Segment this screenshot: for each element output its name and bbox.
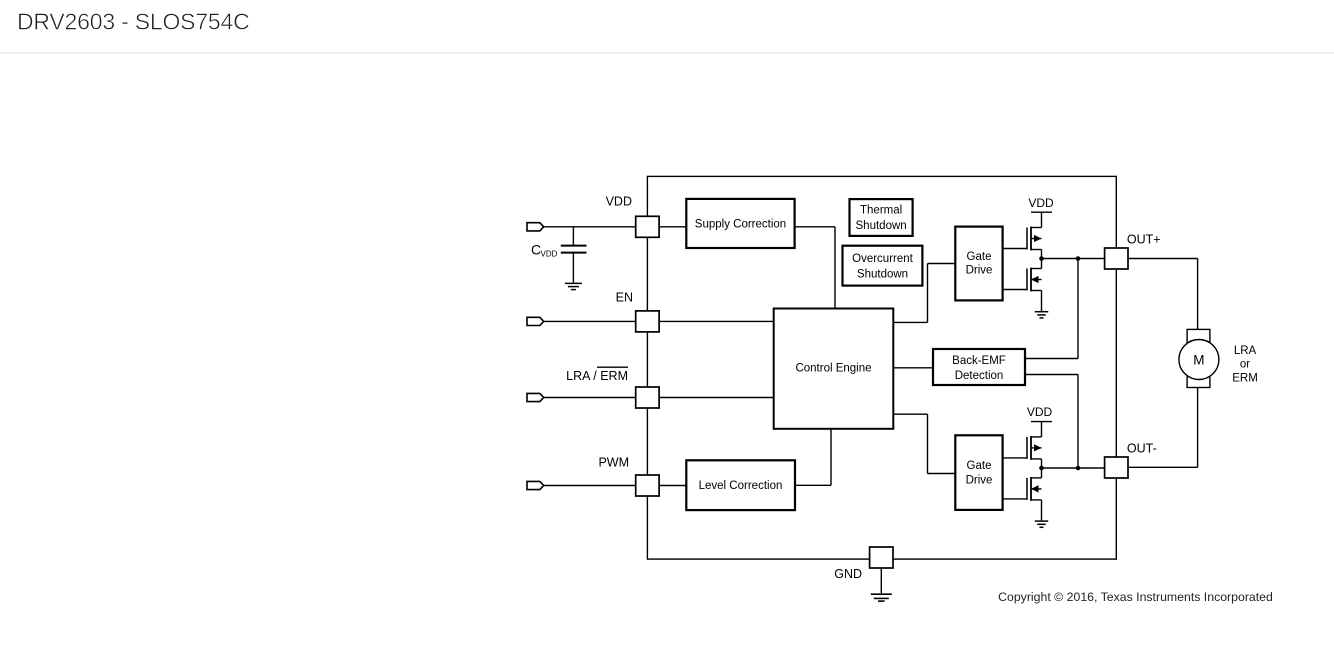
svg-text:Overcurrent: Overcurrent bbox=[852, 253, 914, 265]
svg-text:Drive: Drive bbox=[966, 265, 993, 277]
svg-text:Level Correction: Level Correction bbox=[699, 480, 783, 492]
svg-text:VDD: VDD bbox=[541, 249, 558, 258]
svg-text:VDD: VDD bbox=[1027, 405, 1053, 419]
svg-text:Shutdown: Shutdown bbox=[856, 220, 907, 232]
svg-text:Copyright © 2016, Texas Instru: Copyright © 2016, Texas Instruments Inco… bbox=[998, 590, 1273, 604]
svg-text:Gate: Gate bbox=[967, 460, 992, 472]
svg-text:Supply Correction: Supply Correction bbox=[695, 218, 786, 230]
svg-text:Drive: Drive bbox=[966, 475, 993, 487]
svg-text:OUT-: OUT- bbox=[1127, 442, 1157, 456]
svg-text:Back-EMF: Back-EMF bbox=[952, 355, 1006, 367]
svg-text:OUT+: OUT+ bbox=[1127, 232, 1161, 246]
svg-text:M: M bbox=[1193, 352, 1204, 367]
svg-text:VDD: VDD bbox=[1028, 196, 1054, 210]
svg-text:ERM: ERM bbox=[1232, 372, 1258, 384]
svg-text:Detection: Detection bbox=[955, 370, 1004, 382]
svg-text:Control Engine: Control Engine bbox=[795, 363, 871, 375]
svg-text:Gate: Gate bbox=[967, 251, 992, 263]
svg-text:Shutdown: Shutdown bbox=[857, 268, 908, 280]
svg-text:LRA: LRA bbox=[1234, 345, 1257, 357]
svg-text:VDD: VDD bbox=[606, 195, 632, 209]
svg-text:GND: GND bbox=[834, 567, 862, 581]
svg-text:LRA / ERM: LRA / ERM bbox=[566, 369, 628, 383]
svg-text:Thermal: Thermal bbox=[860, 205, 902, 217]
svg-text:PWM: PWM bbox=[598, 455, 629, 469]
svg-text:EN: EN bbox=[616, 290, 633, 304]
svg-text:or: or bbox=[1240, 359, 1250, 371]
svg-text:DRV2603 - SLOS754C: DRV2603 - SLOS754C bbox=[17, 8, 250, 34]
